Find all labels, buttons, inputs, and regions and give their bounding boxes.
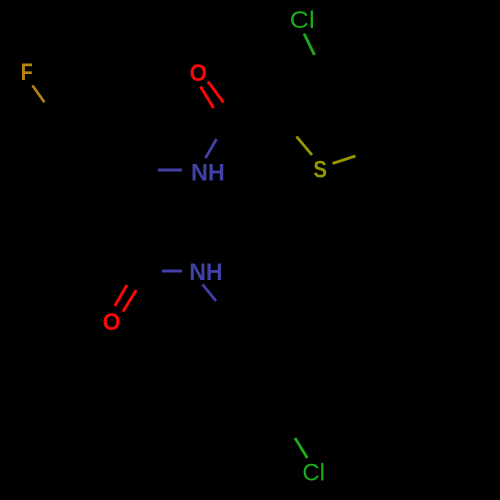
double bond C=O2 line b xyxy=(123,290,136,312)
bond N2-C(=O) stub xyxy=(162,270,182,273)
svg-text:Cl: Cl xyxy=(302,459,325,486)
svg-text:O: O xyxy=(190,60,207,87)
double bond C=O1 line b xyxy=(201,87,214,109)
bond N1-ring stub xyxy=(158,169,182,172)
bond Cl2-C stub xyxy=(295,438,307,458)
bond F-C stub xyxy=(32,85,44,102)
double bond C=O1 line a xyxy=(208,82,224,103)
bond N1-C(=O) stub xyxy=(206,139,217,158)
svg-text:F: F xyxy=(21,59,33,86)
double bond C=O2 line a xyxy=(115,285,127,306)
bond S-C7a stub xyxy=(333,156,356,164)
svg-text:Cl: Cl xyxy=(290,7,315,34)
svg-text:NH: NH xyxy=(191,159,225,186)
bond S-C2 stub xyxy=(297,137,313,156)
bond N2-ring stub xyxy=(203,285,217,302)
svg-text:NH: NH xyxy=(189,259,222,286)
svg-text:O: O xyxy=(103,309,121,336)
svg-text:S: S xyxy=(313,157,327,184)
bond Cl1-C stub xyxy=(304,34,315,56)
